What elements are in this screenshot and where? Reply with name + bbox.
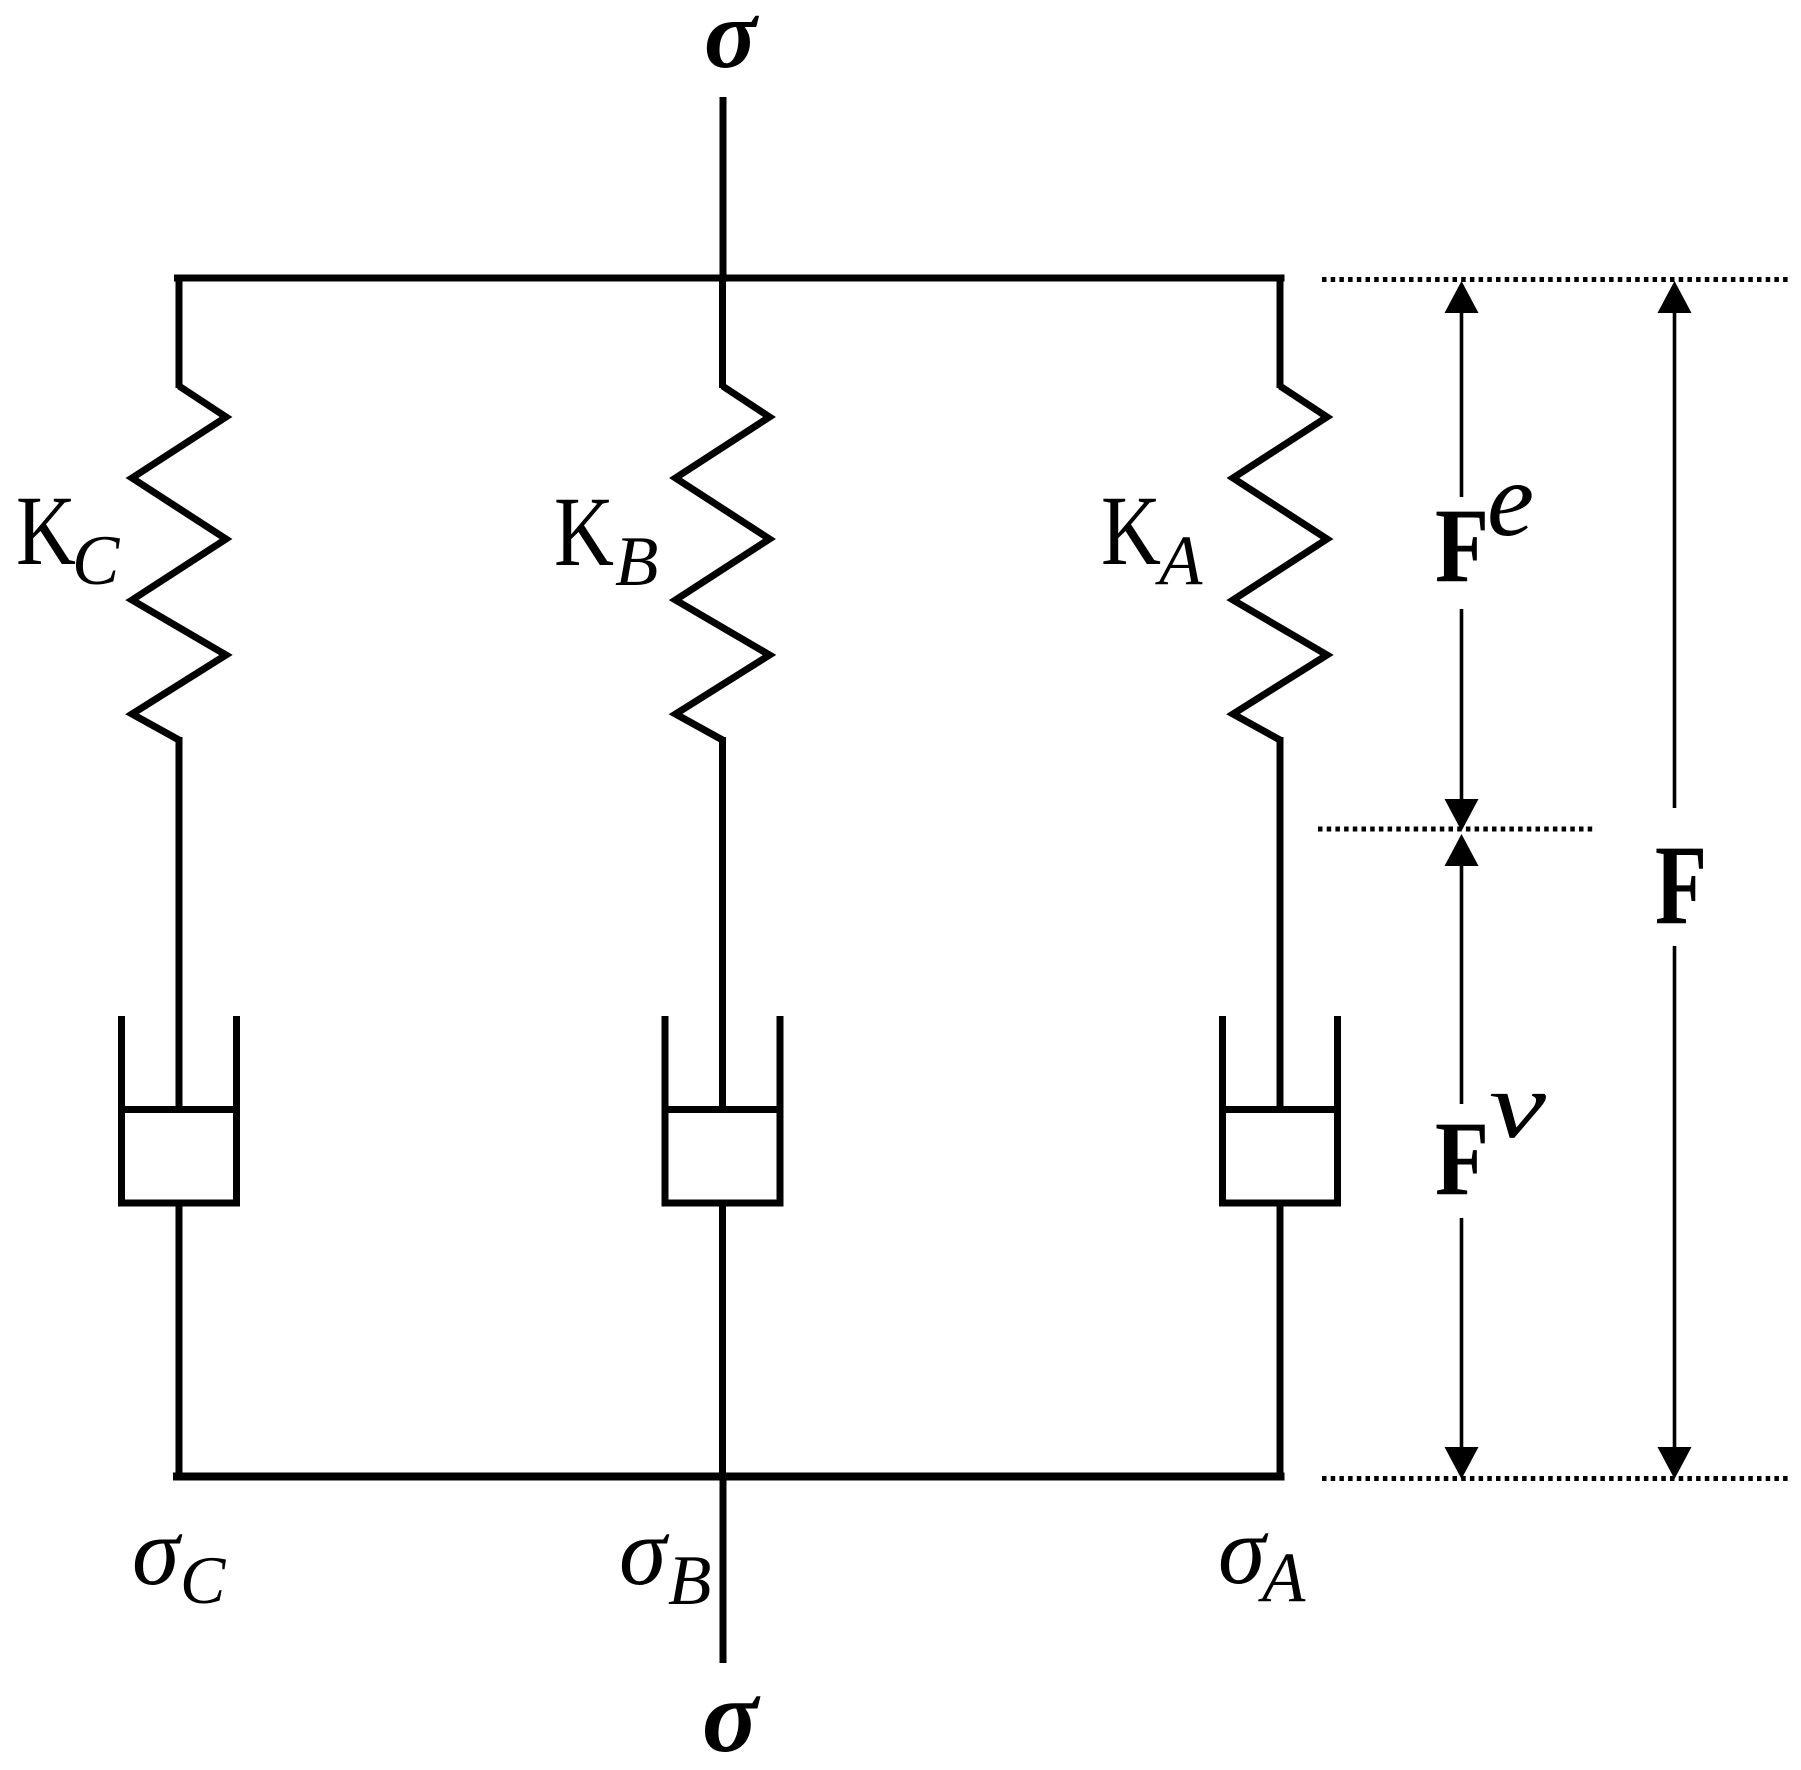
label K_A bbox=[1101, 475, 1203, 600]
svg-text:K: K bbox=[16, 475, 76, 586]
label F^e bbox=[1435, 441, 1534, 604]
wire bottom rod bbox=[720, 1476, 727, 1663]
wire top bar bbox=[174, 275, 1285, 282]
wire top rod bbox=[720, 97, 727, 282]
svg-text:C: C bbox=[72, 522, 121, 600]
wire branch C middle lead bbox=[176, 737, 183, 1110]
dotted line bottom bbox=[1322, 1476, 1789, 1481]
svg-text:K: K bbox=[554, 476, 614, 587]
arrow F^v (dimension arrow between middle and bottom dotted lines) bbox=[1445, 834, 1479, 1479]
label K_C bbox=[16, 475, 121, 600]
label K_B bbox=[554, 476, 658, 601]
svg-text:e: e bbox=[1487, 441, 1534, 558]
svg-text:v: v bbox=[1489, 1054, 1546, 1158]
wire branch C bottom lead bbox=[176, 1203, 183, 1480]
dotted line middle bbox=[1318, 827, 1596, 832]
spring K_A bbox=[1233, 386, 1327, 740]
wire branch C top lead bbox=[176, 275, 183, 389]
svg-text:σ: σ bbox=[132, 1498, 183, 1605]
node sigma top bbox=[704, 0, 760, 89]
svg-text:σ: σ bbox=[704, 0, 760, 89]
svg-text:B: B bbox=[668, 1542, 711, 1620]
svg-text:A: A bbox=[1155, 522, 1203, 600]
label F^v bbox=[1435, 1054, 1546, 1217]
wire branch A top lead bbox=[1277, 275, 1284, 389]
dashpot A bbox=[1219, 1016, 1341, 1207]
svg-text:F: F bbox=[1435, 487, 1489, 604]
svg-text:B: B bbox=[615, 523, 658, 601]
dashpot C bbox=[118, 1016, 240, 1207]
label sigma_B bbox=[619, 1498, 711, 1620]
svg-text:σ: σ bbox=[702, 1659, 761, 1770]
wire branch A bottom lead bbox=[1277, 1203, 1284, 1480]
wire branch B middle lead bbox=[719, 737, 726, 1110]
svg-text:F: F bbox=[1435, 1100, 1489, 1217]
label sigma_C bbox=[132, 1498, 226, 1618]
dotted line top bbox=[1322, 277, 1789, 282]
spring K_C bbox=[132, 386, 226, 740]
svg-text:A: A bbox=[1258, 1539, 1306, 1617]
svg-text:σ: σ bbox=[619, 1498, 670, 1605]
dashpot B bbox=[662, 1016, 784, 1207]
wire bottom bar bbox=[173, 1473, 1285, 1481]
label F bbox=[1655, 823, 1707, 948]
arrow F (full-height dimension arrow) bbox=[1658, 281, 1692, 1479]
wire branch B bottom lead bbox=[719, 1203, 726, 1480]
svg-text:F: F bbox=[1655, 823, 1707, 948]
wire branch B top lead bbox=[719, 275, 726, 389]
wire branch A middle lead bbox=[1277, 737, 1284, 1110]
spring K_B bbox=[676, 386, 770, 740]
svg-text:K: K bbox=[1101, 475, 1161, 586]
label sigma_A bbox=[1218, 1497, 1306, 1617]
arrow F^e (dimension arrow between top and middle dotted lines) bbox=[1445, 281, 1479, 831]
svg-text:C: C bbox=[180, 1542, 226, 1618]
node sigma bottom bbox=[702, 1659, 761, 1770]
